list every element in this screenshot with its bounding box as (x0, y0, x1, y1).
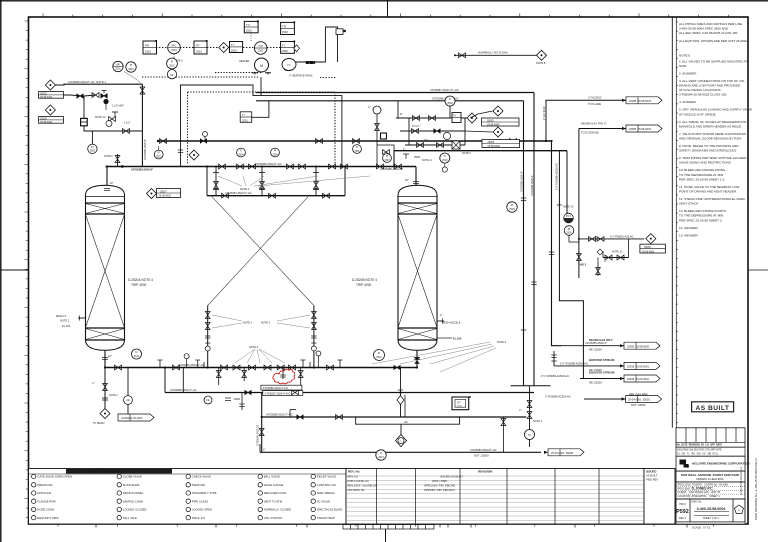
bottom line B1 (260, 451, 541, 453)
bottom connector flag (470, 448, 584, 458)
svg-text:2510: 2510 (442, 159, 448, 162)
XV box between M3 M4 (452, 396, 471, 410)
left label box 1 (39, 92, 64, 99)
vessel D-2520B EL label (437, 337, 452, 339)
svg-text:RE 1/2500: RE 1/2500 (589, 348, 602, 352)
purge main vertical (578, 129, 580, 279)
connector flag 1 (626, 97, 662, 104)
diamond top left (219, 43, 229, 53)
heater lines (296, 27, 338, 65)
signature rows (676, 447, 745, 456)
svg-text:APR.2014 / FB / FBC/AE: APR.2014 / FB / FBC/AE (424, 484, 455, 488)
M1 circles small (184, 354, 189, 368)
svg-text:TRIP 4000: TRIP 4000 (356, 283, 371, 287)
svg-text:P592: P592 (676, 509, 689, 515)
svg-text:¾": ¾" (368, 106, 371, 109)
control valve with actuator (101, 90, 107, 98)
svg-text:NOTE 3: NOTE 3 (497, 341, 507, 344)
manifold M4 (262, 416, 527, 418)
svg-text:RELIEF VALVE: RELIEF VALVE (317, 475, 336, 479)
number row (676, 499, 745, 522)
small circle on stem (103, 99, 108, 110)
svg-text:TI: TI (449, 97, 452, 101)
vessel D-2520B side nozzle labels (440, 313, 461, 324)
junction dots L1 (106, 165, 343, 167)
regen circle (445, 96, 455, 106)
svg-text:VENT TO ATM: VENT TO ATM (264, 499, 283, 503)
purge row 1 (578, 234, 644, 241)
leader fan notes (218, 176, 370, 186)
svg-text:PI: PI (130, 63, 133, 67)
junction square on L1 (121, 165, 123, 167)
svg-text:AE: AE (126, 399, 130, 402)
inlet line top-left (55, 80, 142, 85)
svg-text:REDUCER CONC: REDUCER CONC (264, 491, 287, 495)
svg-text:TI: TI (444, 154, 447, 158)
svg-text:25035: 25035 (644, 246, 651, 249)
crossover riser right (313, 306, 315, 368)
company logo (680, 460, 690, 468)
connector flag row1 (624, 342, 660, 349)
vessel D-2520A side nozzle labels (56, 314, 71, 328)
svg-text:2516: 2516 (566, 232, 572, 234)
svg-text:10. BLEED AND DRAINS PIPING: 10. BLEED AND DRAINS PIPING (679, 168, 726, 172)
svg-text:POINT OF DRAINS AND VENT HEADE: POINT OF DRAINS AND VENT HEADER. (679, 190, 737, 194)
svg-text:DRIERS & HEATERS: DRIERS & HEATERS (697, 477, 724, 481)
top-left instrument box PY (194, 40, 208, 54)
drain diamond valve (397, 396, 404, 405)
right connector row 4 (545, 393, 647, 407)
crossover riser right valves (311, 312, 316, 352)
svg-text:1½"-P25091-A25-HC: 1½"-P25091-A25-HC (610, 234, 634, 238)
svg-text:3-P25086-2520-4"-HC: 3-P25086-2520-4"-HC (263, 386, 289, 390)
svg-text:1 1/2": 1 1/2" (124, 122, 131, 125)
svg-text:P&ID DRAWING No. 3-400-25-58-0: P&ID DRAWING No. 3-400-25-58-0004 REV.2 (754, 458, 758, 520)
M1 flange ticks (160, 360, 340, 368)
svg-text:ISO.DWG No.: ISO.DWG No. (348, 488, 366, 492)
svg-text:10": 10" (108, 354, 112, 358)
fold mark bottom center (385, 529, 387, 542)
page edge line top (0, 0, 768, 2)
svg-text:25-58-0004: 25-58-0004 (40, 121, 53, 124)
svg-text:HEATER: HEATER (239, 59, 249, 63)
svg-text:(NORMALLY NO FLOW): (NORMALLY NO FLOW) (478, 51, 508, 55)
left off-page diamond 2 (45, 105, 55, 115)
svg-text:STEAM TRAP: STEAM TRAP (317, 516, 335, 520)
main pipe header L1 (106, 166, 417, 168)
drain header right (511, 385, 551, 387)
size texts (368, 106, 432, 162)
right connector row 3 (541, 371, 624, 385)
svg-text:DSN DRW CHK ENG PRC STD APP DA: DSN DRW CHK ENG PRC STD APP DATE (677, 448, 722, 451)
svg-text:2501: 2501 (242, 119, 248, 123)
vessel D-2520B (398, 185, 437, 350)
purge diamond (646, 234, 656, 244)
svg-text:2506: 2506 (354, 151, 360, 153)
svg-text:FOR 1 DATE xxx: FOR 1 DATE xxx (348, 479, 370, 483)
vent diamond (536, 50, 547, 65)
svg-text:ISSUED AS BUILT: ISSUED AS BUILT (440, 475, 464, 479)
svg-text:LOCKED CLOSED: LOCKED CLOSED (123, 508, 147, 512)
svg-text:HS: HS (404, 420, 408, 424)
svg-text:2. ANSWER:: 2. ANSWER: (679, 71, 697, 75)
svg-text:NOTE 2: NOTE 2 (249, 346, 259, 349)
M1-M3 riser 2 (182, 368, 184, 393)
svg-text:FI: FI (171, 60, 174, 64)
svg-text:No. DATE REVISION BY CH AP: No. DATE REVISION BY CH APP DATE (677, 444, 723, 447)
svg-text:2502: 2502 (282, 49, 288, 53)
drain chain right bottom (519, 386, 543, 447)
svg-text:2509: 2509 (509, 208, 515, 211)
svg-text:2501: 2501 (258, 50, 264, 53)
inlet vertical (141, 84, 143, 166)
svg-text:NOTE 9: NOTE 9 (306, 62, 316, 65)
svg-text:TO DRAIN: TO DRAIN (93, 422, 105, 425)
svg-text:3-P25083-2520-8": 3-P25083-2520-8" (131, 168, 154, 172)
svg-text:BALL VALVE: BALL VALVE (264, 475, 280, 479)
svg-text:2505: 2505 (272, 154, 278, 156)
svg-text:INSTR AIR: INSTR AIR (37, 491, 51, 495)
svg-text:3-P25084-25-58-0025 CLASS 150.: 3-P25084-25-58-0025 CLASS 150. (679, 93, 727, 97)
svg-text:TO FLARE: TO FLARE (588, 102, 601, 106)
svg-text:NOTES:: NOTES: (679, 53, 691, 57)
svg-text:SC VALVE: SC VALVE (317, 499, 330, 503)
left off-page diamond 1 (45, 80, 55, 90)
connector line 1 argon (546, 96, 626, 141)
svg-text:3-P25084-25-0007: 3-P25084-25-0007 (121, 416, 143, 420)
M3 riser small (241, 393, 243, 411)
svg-text:TC: TC (246, 23, 250, 27)
svg-text:PRESS IND: PRESS IND (37, 483, 52, 487)
svg-text:2520: 2520 (457, 406, 463, 408)
dark box (81, 118, 88, 125)
drop valves (216, 371, 303, 378)
svg-text:3-400-25-58-0004: 3-400-25-58-0004 (697, 507, 726, 511)
svg-text:2513: 2513 (378, 456, 384, 459)
svg-text:2507: 2507 (384, 160, 390, 162)
svg-text:3-P25085-2520-3": 3-P25085-2520-3" (520, 171, 524, 192)
svg-text:FI: FI (158, 152, 161, 155)
svg-text:11. HOSE, VALVE TO THE NEAREST: 11. HOSE, VALVE TO THE NEAREST LOW (679, 185, 739, 189)
svg-text:10": 10" (110, 181, 114, 185)
svg-text:25-06-0002 25008: 25-06-0002 25008 (551, 451, 573, 455)
svg-text:AT NOZZLE IS AT GRADE.: AT NOZZLE IS AT GRADE. (679, 112, 717, 116)
instrument circle center (254, 42, 267, 55)
interlock diamond circle (396, 435, 407, 447)
revision cloud (273, 369, 295, 384)
purge label box (640, 244, 666, 253)
svg-text:NOTE 3: NOTE 3 (533, 420, 543, 423)
vessel D-2520B bottom nozzle (414, 350, 420, 367)
svg-text:TIC: TIC (258, 44, 263, 48)
svg-text:¾": ¾" (92, 382, 95, 385)
svg-text:D-2520B NOTE 4: D-2520B NOTE 4 (352, 278, 377, 282)
svg-text:PER SPEC 25-25-58 SHEET 2.: PER SPEC 25-25-58 SHEET 2. (679, 218, 723, 222)
svg-text:RE 1/2500: RE 1/2500 (589, 380, 602, 384)
svg-text:2511: 2511 (134, 355, 140, 358)
instrument box TC (244, 20, 258, 41)
vessel D-2520B bottom valve (415, 358, 420, 364)
M2 riser left (206, 167, 208, 196)
dash-dot instrument trunk (142, 76, 258, 78)
M1 junction dots (104, 366, 418, 368)
instrument circle low (507, 202, 517, 212)
pipe lineB (256, 100, 524, 102)
M1 valve cluster 1 (115, 365, 122, 370)
connector arrows (544, 99, 626, 454)
svg-text:2004 / 1998: 2004 / 1998 (432, 479, 447, 483)
svg-text:TRIP 4000: TRIP 4000 (131, 283, 146, 287)
svg-text:AT FOLLOWING LOCATIONS.: AT FOLLOWING LOCATIONS. (679, 88, 722, 92)
svg-text:3-P25083-2520-8"-HC: 3-P25083-2520-8"-HC (470, 448, 497, 452)
svg-text:3-400-25-58-0004 SPEC 3500 AND: 3-400-25-58-0004 SPEC 3500 AND (679, 27, 729, 31)
svg-text:NOTE 13: NOTE 13 (612, 251, 623, 254)
svg-text:PI: PI (386, 155, 389, 158)
logo row (676, 456, 745, 471)
boxed line label 2 (263, 391, 303, 396)
svg-text:25055: 25055 (487, 119, 494, 122)
svg-text:7. TIE-IN POINT SHOWN HERE IS: 7. TIE-IN POINT SHOWN HERE IS ESTIMATED (679, 132, 747, 136)
svg-text:SHEET 1 OF 1: SHEET 1 OF 1 (703, 517, 720, 520)
svg-text:M: M (260, 64, 263, 68)
svg-text:P&ID REV: P&ID REV (646, 478, 658, 482)
svg-text:SPEC BREAK: SPEC BREAK (317, 491, 335, 495)
svg-text:25055 25-58-0003: 25055 25-58-0003 (629, 127, 651, 131)
svg-text:LEGEND & SYMBOLS: LEGEND & SYMBOLS (85, 470, 121, 474)
right connector row 1 (561, 338, 624, 352)
svg-text:NOTE 13: NOTE 13 (563, 206, 574, 209)
svg-text:STRAINER Y-TYPE: STRAINER Y-TYPE (192, 491, 217, 495)
svg-text:1. ALL VALVES TO BE SUPPLIED M: 1. ALL VALVES TO BE SUPPLIED MOUNTED AT (679, 59, 747, 63)
svg-text:3-P25086-2520-4": 3-P25086-2520-4" (530, 175, 534, 196)
svg-text:INSUL KIT: INSUL KIT (192, 516, 206, 520)
svg-text:25055 25-58-0003: 25055 25-58-0003 (629, 99, 651, 103)
dashed info block (676, 482, 745, 499)
connector flag row4 (626, 396, 662, 403)
diamond label box 1 (482, 118, 520, 127)
svg-text:JS KM TL RB WD AG: JS KM TL RB WD AG MB 04.11 (677, 453, 719, 456)
svg-text:FE: FE (206, 399, 209, 402)
page edge line left (0, 0, 2, 542)
vent circle on H1 (203, 132, 208, 142)
long vertical xV3 (552, 141, 562, 346)
svg-text:LOCATION ZHANAZHOL SHEET 1: LOCATION ZHANAZHOL SHEET 1 (678, 495, 721, 498)
svg-text:25057: 25057 (160, 190, 167, 193)
M1 tick tees (158, 359, 343, 361)
svg-text:NOT 1/2500: NOT 1/2500 (631, 403, 646, 407)
svg-text:UTIL STATION: UTIL STATION (264, 516, 282, 520)
regen cluster lines (396, 101, 470, 145)
svg-text:25035 25-06-0002: 25035 25-06-0002 (627, 377, 649, 381)
M4 riser stubs (290, 395, 503, 452)
svg-text:25-06-0003: 25-06-0003 (159, 195, 172, 198)
fold mark left (0, 269, 29, 271)
diamond above L1 (189, 150, 199, 160)
arrows to diamonds (465, 111, 493, 132)
manifold M3 (165, 392, 534, 394)
svg-text:AS BUILT: AS BUILT (646, 474, 658, 478)
legend box (29, 469, 347, 525)
svg-text:REV 0.0: REV 0.0 (348, 475, 359, 479)
second drop (127, 368, 129, 415)
aux ellipse (282, 59, 296, 71)
revision table (346, 469, 644, 525)
svg-text:2": 2" (403, 148, 405, 151)
vessel D-2520A side nozzle (78, 316, 86, 321)
svg-text:PROJ: PROJ (679, 503, 686, 506)
svg-text:ISSUED: ISSUED (646, 470, 656, 474)
fan leaders M1 (372, 342, 496, 372)
riser tees (213, 173, 319, 190)
svg-text:FY: FY (453, 115, 456, 118)
svg-text:TI: TI (242, 113, 245, 117)
svg-text:TO E-2520A/B: TO E-2520A/B (581, 131, 599, 135)
svg-text:PCV: PCV (566, 215, 571, 218)
valve on inlet (140, 87, 145, 94)
connector flag row2 (624, 362, 660, 369)
right connector row 2 (551, 351, 624, 372)
instrument box TIC (240, 112, 252, 123)
svg-text:TI: TI (356, 146, 359, 149)
svg-text:2502: 2502 (282, 30, 288, 34)
svg-text:2"-P25090-A2520-HC: 2"-P25090-A2520-HC (545, 395, 571, 399)
TI circles at V2 top (440, 153, 450, 172)
drop circle (124, 396, 133, 405)
valve near column base (383, 150, 390, 155)
svg-text:ALL EQP NOS. SHOWN ARE PER UNI: ALL EQP NOS. SHOWN ARE PER UNIT 25 AREA. (679, 39, 750, 43)
solid signal lines top (181, 77, 342, 167)
pipe header H1 (158, 140, 552, 142)
svg-text:4. ANSWER.: 4. ANSWER. (679, 100, 697, 104)
M1 valves (173, 365, 180, 370)
fold mark top center (387, 0, 389, 17)
svg-text:VALVE SIZING AND RESTRICTIONS.: VALVE SIZING AND RESTRICTIONS. (679, 161, 732, 165)
svg-text:1½"x¾": 1½"x¾" (412, 124, 420, 128)
dark box on column (381, 133, 387, 139)
M3 riser flanges (239, 404, 244, 407)
FI circle above M1 right (374, 350, 385, 361)
small box top (336, 29, 346, 35)
valves on header H1 (160, 139, 167, 144)
svg-text:14. ANSWER.: 14. ANSWER. (679, 226, 699, 230)
svg-text:NOTE 3: NOTE 3 (240, 188, 250, 191)
left drop labels (92, 382, 118, 425)
svg-text:2": 2" (263, 449, 265, 452)
svg-text:NOTE 8: NOTE 8 (536, 61, 546, 65)
instrument box left (230, 42, 243, 53)
left FE circle group (204, 396, 240, 404)
svg-text:TR: TR (282, 24, 286, 28)
vessel D-2520B label (352, 278, 377, 287)
left ruler ticks (25, 21, 29, 518)
svg-text:RESTRICT ORIF: RESTRICT ORIF (37, 516, 59, 520)
instrument box right pair (281, 41, 296, 54)
M3 riser (164, 368, 166, 393)
regen valves row1 (413, 116, 420, 121)
instrument circle pair mid (167, 58, 178, 79)
vent ticks (403, 154, 420, 159)
small circle on column (373, 106, 381, 114)
long vertical xV2 (533, 93, 535, 386)
svg-text:HOSE CONN: HOSE CONN (37, 508, 54, 512)
vessel D-2520A top nozzle (104, 167, 110, 191)
vent line to right (454, 51, 538, 58)
AS BUILT stamp (692, 402, 734, 412)
regen valves row3 (417, 143, 424, 148)
crossover diagonals X1 (208, 196, 314, 306)
regen size labels (400, 113, 471, 155)
top-left dashdot drop (173, 54, 175, 69)
downcomer valve (259, 429, 264, 436)
svg-text:SPECTACLE BLIND: SPECTACLE BLIND (317, 508, 342, 512)
svg-text:HELLFIRE ENGINEERING CORPORATI: HELLFIRE ENGINEERING CORPORATION (692, 462, 749, 466)
svg-text:2"-HC 3010: 2"-HC 3010 (542, 106, 546, 120)
junction dots (207, 140, 553, 418)
svg-text:MANIFOLD AND DRIER HEADER AS R: MANIFOLD AND DRIER HEADER AS REQD. (679, 124, 742, 128)
svg-text:TO THE DEPRESSURE AT MIN: TO THE DEPRESSURE AT MIN (679, 214, 723, 218)
svg-text:SKID.: SKID. (679, 64, 687, 68)
top-left instrument row dash-dot (156, 47, 219, 49)
svg-text:1 1/2"x3/4": 1 1/2"x3/4" (112, 105, 124, 108)
svg-text:25056: 25056 (488, 141, 495, 144)
svg-text:3-P25084-2520-6"-HC: 3-P25084-2520-6"-HC (225, 191, 252, 195)
svg-text:FY: FY (287, 63, 291, 67)
svg-text:1½"-P25089-A2520-HC: 1½"-P25089-A2520-HC (541, 374, 569, 378)
regen box row1 (452, 113, 461, 123)
FI circle above M1 left (132, 349, 142, 359)
svg-text:10": 10" (405, 178, 409, 182)
svg-text:LOCKED OPEN: LOCKED OPEN (192, 508, 212, 512)
bottom circle on B1 (376, 450, 386, 460)
motor circle (239, 58, 271, 75)
flanges on box vertical (178, 150, 183, 153)
svg-text:NOTE 2: NOTE 2 (60, 319, 70, 323)
svg-text:3-P25088-2520-2B: 3-P25088-2520-2B (380, 167, 403, 171)
svg-text:PIC: PIC (172, 44, 177, 48)
svg-text:1½": 1½" (424, 138, 428, 142)
manifold M2 (207, 195, 345, 197)
svg-text:3-P25088-2520-3"-HC: 3-P25088-2520-3"-HC (170, 388, 197, 392)
svg-text:REGEN GAS RTN 3": REGEN GAS RTN 3" (581, 122, 606, 126)
svg-text:2501: 2501 (231, 48, 237, 52)
svg-text:3-P25085-2520-6"-HC: 3-P25085-2520-6"-HC (178, 363, 205, 367)
bottom flag left (118, 414, 154, 421)
pipe header L150 (394, 150, 567, 152)
svg-text:MESH 4": MESH 4" (56, 314, 67, 318)
svg-text:1½"-P25088-A2520-HC: 1½"-P25088-A2520-HC (560, 361, 588, 365)
svg-text:GATE VALVE NORM OPEN: GATE VALVE NORM OPEN (37, 475, 72, 479)
svg-text:NOTE 2: NOTE 2 (104, 155, 113, 158)
svg-text:3. ALL VENT CONNECTIONS ON TOP: 3. ALL VENT CONNECTIONS ON TOP OF VSL. (679, 79, 746, 83)
bottom scale comb (96, 524, 687, 529)
svg-text:XV: XV (457, 402, 461, 405)
svg-text:2508: 2508 (447, 102, 453, 105)
note3 leaders left (212, 315, 242, 328)
small diamond right (294, 45, 300, 52)
svg-text:TI: TI (240, 150, 243, 153)
fold mark right (748, 269, 768, 271)
svg-text:5. DRY GRANULAR LOADING AND SU: 5. DRY GRANULAR LOADING AND SUPPLY VALVE (679, 108, 752, 112)
svg-text:3-P25087-2520-1½"-HC: 3-P25087-2520-1½"-HC (430, 88, 459, 92)
notes text (679, 22, 752, 237)
V2 top-left fittings column (377, 114, 394, 167)
svg-text:2"-HC3010: 2"-HC3010 (588, 96, 602, 100)
svg-text:BOOSTER STREAM: BOOSTER STREAM (589, 371, 615, 375)
title text (676, 471, 745, 482)
drop valve (103, 384, 108, 391)
svg-text:3" HEATER BYPASS: 3" HEATER BYPASS (289, 75, 313, 78)
svg-text:SAFETY DIAGRAMS AND INTERLOCKS: SAFETY DIAGRAMS AND INTERLOCKS. (679, 149, 737, 153)
